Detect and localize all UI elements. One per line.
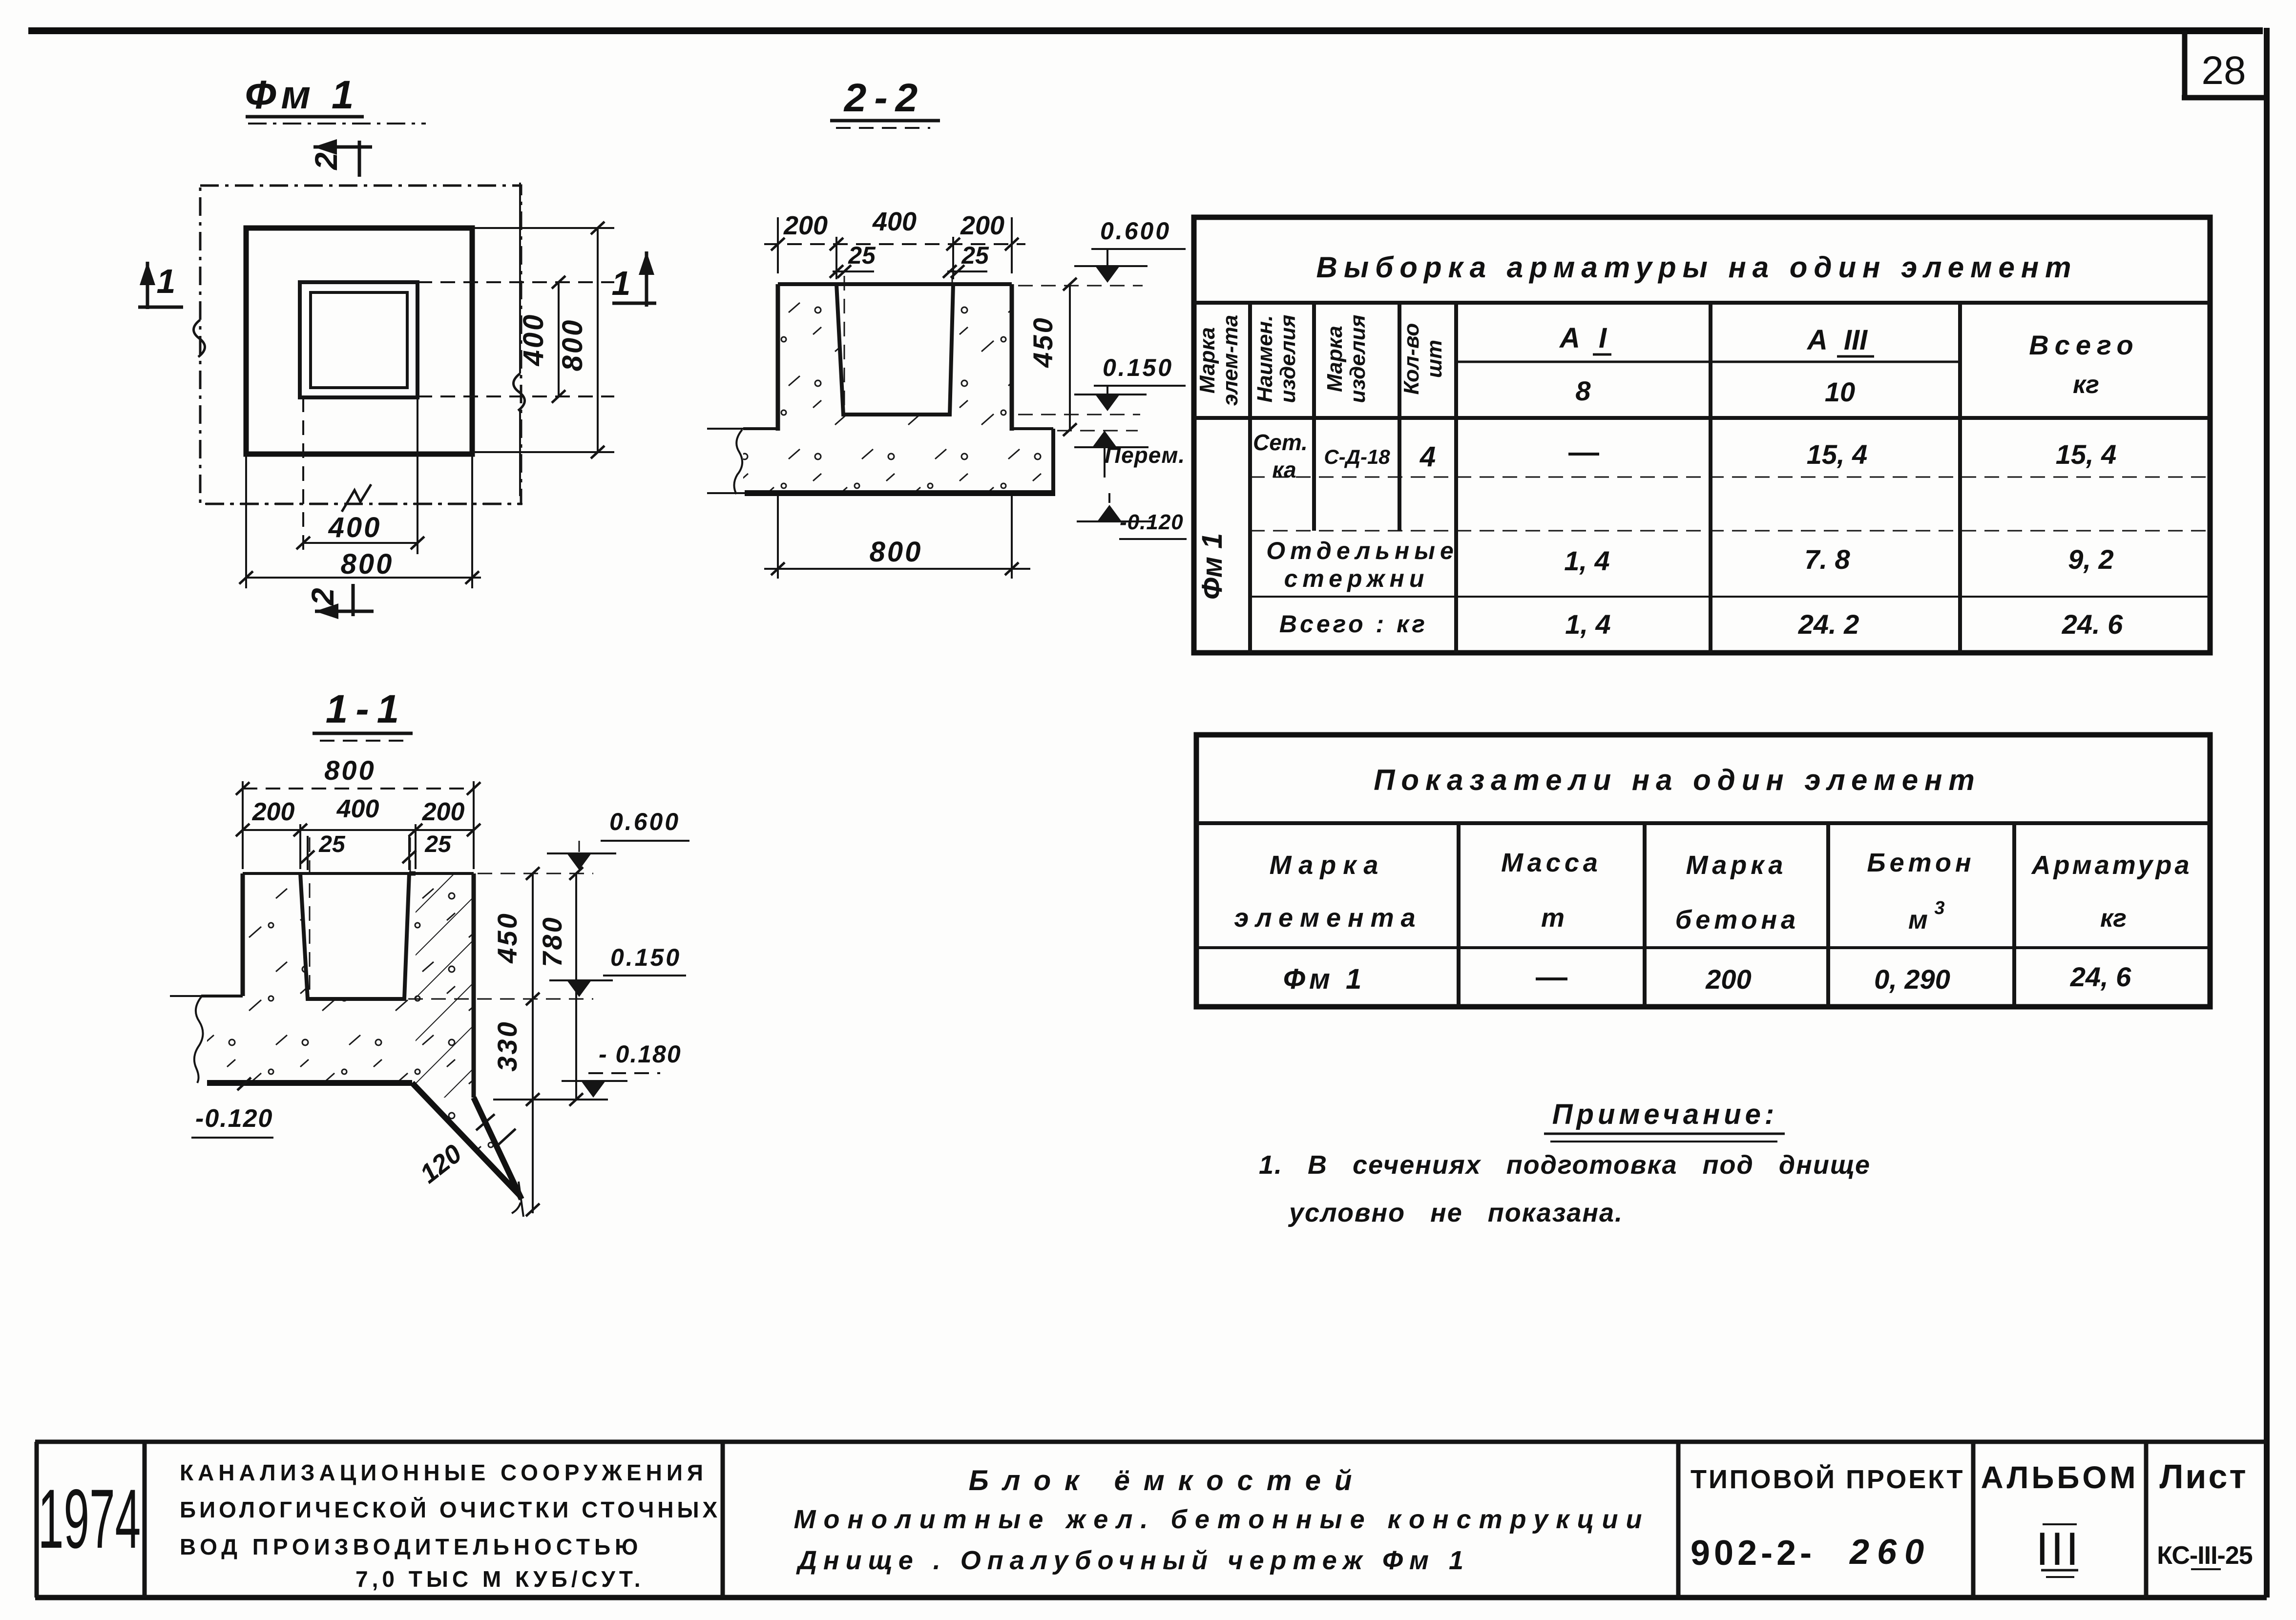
svg-text:Всего : кг: Всего : кг [1279, 610, 1428, 638]
svg-text:Бетон: Бетон [1867, 848, 1975, 877]
svg-text:0.150: 0.150 [610, 944, 681, 971]
svg-text:Кол-во: Кол-во [1399, 323, 1423, 395]
svg-text:2-2: 2-2 [843, 76, 926, 120]
svg-text:стержни: стержни [1284, 565, 1429, 592]
svg-text:бетона: бетона [1675, 905, 1799, 935]
svg-text:902-2-: 902-2- [1691, 1534, 1816, 1573]
svg-text:кг: кг [2100, 904, 2127, 933]
svg-text:25: 25 [318, 831, 346, 857]
svg-text:Марка: Марка [1686, 851, 1787, 880]
svg-text:Лист: Лист [2159, 1457, 2248, 1495]
svg-text:Примечание:: Примечание: [1552, 1099, 1778, 1130]
svg-text:Марка: Марка [1270, 851, 1385, 880]
svg-text:200: 200 [422, 798, 465, 826]
svg-text:условно не показана.: условно не показана. [1288, 1198, 1623, 1227]
svg-text:- 0.180: - 0.180 [599, 1040, 682, 1068]
svg-text:400: 400 [336, 795, 379, 823]
svg-text:Марка: Марка [1323, 326, 1347, 392]
svg-text:800: 800 [341, 548, 394, 580]
svg-text:25: 25 [424, 831, 452, 857]
svg-text:200: 200 [960, 211, 1004, 240]
svg-text:Всего: Всего [2029, 330, 2139, 360]
svg-text:15, 4: 15, 4 [2056, 439, 2117, 470]
svg-text:2: 2 [309, 152, 344, 170]
svg-text:-0.120: -0.120 [1120, 510, 1184, 534]
svg-text:24. 2: 24. 2 [1798, 609, 1859, 640]
svg-text:450: 450 [492, 912, 522, 963]
svg-text:800: 800 [870, 536, 923, 568]
svg-text:КАНАЛИЗАЦИОННЫЕ СООРУЖЕНИЯ: КАНАЛИЗАЦИОННЫЕ СООРУЖЕНИЯ [180, 1460, 708, 1485]
svg-text:4: 4 [1419, 441, 1436, 473]
svg-text:ТИПОВОЙ ПРОЕКТ: ТИПОВОЙ ПРОЕКТ [1691, 1464, 1965, 1494]
svg-text:изделия: изделия [1346, 314, 1370, 403]
svg-text:800: 800 [324, 755, 376, 786]
svg-text:Наимен.: Наимен. [1253, 315, 1277, 403]
svg-text:т: т [1541, 903, 1565, 933]
svg-text:А: А [1806, 324, 1828, 356]
svg-text:Днище . Опалубочный чертеж: Днище . Опалубочный чертеж Фм 1 [796, 1546, 1470, 1575]
svg-text:-0.120: -0.120 [195, 1104, 273, 1133]
svg-text:Фм 1: Фм 1 [245, 73, 358, 117]
svg-text:7,0 ТЫС М КУБ/СУТ.: 7,0 ТЫС М КУБ/СУТ. [355, 1566, 645, 1592]
svg-text:15, 4: 15, 4 [1807, 439, 1868, 470]
svg-text:шт: шт [1422, 340, 1446, 378]
svg-text:III: III [1844, 324, 1868, 356]
svg-text:800: 800 [557, 318, 588, 372]
svg-text:780: 780 [537, 915, 567, 967]
svg-text:Фм 1: Фм 1 [1196, 533, 1228, 600]
svg-text:0.600: 0.600 [609, 808, 680, 835]
svg-text:25: 25 [961, 242, 989, 269]
svg-text:Фм 1: Фм 1 [1283, 963, 1366, 995]
svg-text:Показатели на один элемент: Показатели на один элемент [1374, 764, 1981, 796]
svg-text:450: 450 [1027, 316, 1058, 368]
svg-text:7. 8: 7. 8 [1804, 544, 1850, 575]
svg-text:25: 25 [848, 242, 876, 269]
svg-text:Монолитные жел. бетонные кон: Монолитные жел. бетонные конструкции [794, 1505, 1650, 1534]
svg-text:24. 6: 24. 6 [2062, 609, 2123, 640]
svg-text:Марка: Марка [1195, 327, 1219, 394]
svg-text:9, 2: 9, 2 [2068, 544, 2113, 575]
svg-text:24, 6: 24, 6 [2070, 961, 2131, 992]
svg-text:200: 200 [783, 211, 828, 240]
svg-text:3: 3 [1934, 898, 1944, 918]
svg-text:1-1: 1-1 [326, 687, 407, 731]
svg-text:8: 8 [1575, 375, 1591, 406]
svg-text:2: 2 [305, 588, 340, 606]
svg-text:260: 260 [1849, 1533, 1932, 1572]
svg-text:0, 290: 0, 290 [1874, 964, 1950, 995]
svg-text:АЛЬБОМ: АЛЬБОМ [1981, 1460, 2139, 1495]
svg-text:Масса: Масса [1501, 848, 1602, 877]
svg-text:кг: кг [2073, 371, 2099, 399]
svg-text:м: м [1908, 905, 1928, 935]
svg-text:400: 400 [872, 207, 917, 236]
svg-text:1974: 1974 [38, 1472, 141, 1566]
svg-text:0.600: 0.600 [1100, 217, 1171, 245]
svg-text:Отдельные: Отдельные [1266, 537, 1459, 564]
svg-text:Арматура: Арматура [2031, 851, 2192, 880]
svg-text:400: 400 [518, 313, 549, 367]
svg-text:Перем.: Перем. [1105, 442, 1185, 468]
svg-text:Сет.: Сет. [1253, 430, 1308, 455]
svg-text:ка: ка [1272, 457, 1296, 482]
svg-text:Выборка арматуры на один эл: Выборка арматуры на один элемент [1316, 251, 2078, 284]
svg-text:III: III [2036, 1523, 2081, 1575]
svg-text:I: I [1599, 322, 1607, 354]
svg-text:Блок ёмкостей: Блок ёмкостей [969, 1465, 1366, 1496]
svg-text:1. В сечениях подготовка под: 1. В сечениях подготовка под днище [1259, 1150, 1871, 1180]
svg-text:400: 400 [328, 512, 382, 543]
svg-text:БИОЛОГИЧЕСКОЙ ОЧИСТКИ СТОЧНЫХ: БИОЛОГИЧЕСКОЙ ОЧИСТКИ СТОЧНЫХ [180, 1497, 721, 1522]
svg-text:28: 28 [2201, 48, 2246, 93]
svg-text:С-Д-18: С-Д-18 [1324, 445, 1390, 468]
svg-text:КС-III-25: КС-III-25 [2157, 1541, 2253, 1570]
svg-text:1: 1 [157, 262, 176, 300]
svg-text:1, 4: 1, 4 [1564, 545, 1609, 576]
svg-text:330: 330 [492, 1020, 522, 1071]
svg-text:200: 200 [1705, 964, 1751, 995]
svg-text:элемента: элемента [1234, 903, 1422, 933]
svg-text:1: 1 [612, 264, 631, 302]
svg-text:200: 200 [252, 798, 295, 826]
svg-text:10: 10 [1825, 376, 1855, 407]
svg-text:А: А [1559, 322, 1580, 354]
svg-text:ВОД ПРОИЗВОДИТЕЛЬНОСТЬЮ: ВОД ПРОИЗВОДИТЕЛЬНОСТЬЮ [180, 1534, 642, 1559]
svg-text:1, 4: 1, 4 [1565, 609, 1610, 640]
svg-text:0.150: 0.150 [1103, 354, 1173, 381]
svg-text:элем-та: элем-та [1218, 315, 1242, 406]
svg-text:изделия: изделия [1276, 314, 1300, 403]
